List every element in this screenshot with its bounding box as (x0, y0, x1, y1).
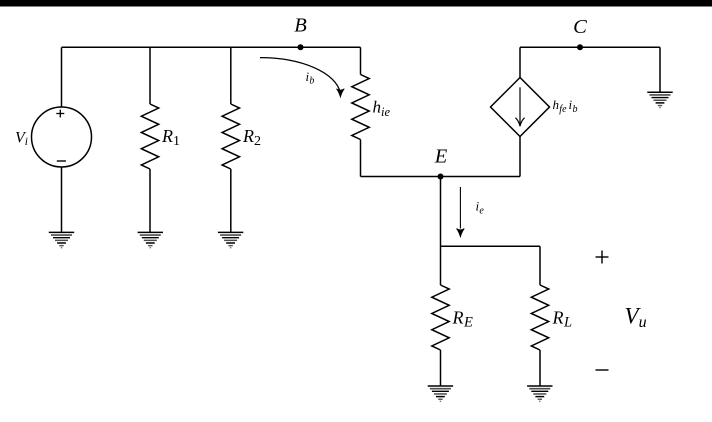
resistor hie (352, 75, 391, 140)
wire: R1 top lead (149, 47, 151, 104)
wire: RL top lead (539, 246, 541, 285)
wire: source top lead (519, 47, 521, 77)
ground R2 (218, 232, 243, 248)
node B (294, 15, 307, 51)
wire: E row bus (361, 176, 521, 178)
svg-text:B: B (294, 15, 307, 37)
node C (573, 16, 587, 50)
ground C (647, 92, 672, 108)
wire: RL bottom lead (539, 350, 541, 386)
wire: Vi bottom lead (61, 167, 63, 232)
ground R1 (138, 232, 163, 248)
wire: top bus C (520, 46, 660, 48)
svg-text:C: C (573, 16, 587, 38)
label Vu minus (596, 369, 609, 371)
node E (434, 146, 448, 180)
wire: R1 bottom lead (149, 169, 151, 232)
resistor R1 (141, 104, 180, 169)
wire: bottom bus (RE to RL) (441, 245, 541, 247)
resistor RE (432, 285, 473, 350)
ground RE (428, 386, 453, 402)
wire: C ground lead (659, 47, 661, 92)
current arrow ib (260, 58, 344, 97)
wire: R2 bottom lead (230, 169, 232, 232)
dependent current source hfe*ib (491, 78, 578, 137)
wire: Vi top lead (61, 47, 63, 107)
svg-text:E: E (434, 146, 448, 168)
wire: RE top lead (440, 246, 442, 285)
wire: hie top lead (360, 47, 362, 74)
wire: source bottom lead (519, 137, 521, 177)
wire: E to bottom bus (440, 177, 442, 247)
wire: hie bottom lead (360, 140, 362, 177)
wire: R2 top lead (230, 47, 232, 104)
label Vu plus (596, 251, 609, 264)
wire: top bus B (Vi to hie corner) (62, 46, 361, 48)
resistor RL (531, 285, 572, 350)
wire: RE bottom lead (440, 350, 442, 386)
ground Vi (49, 232, 74, 248)
current arrow ie (457, 187, 485, 237)
ground RL (527, 386, 552, 402)
voltage source Vi (15, 107, 92, 167)
resistor R2 (222, 104, 261, 169)
